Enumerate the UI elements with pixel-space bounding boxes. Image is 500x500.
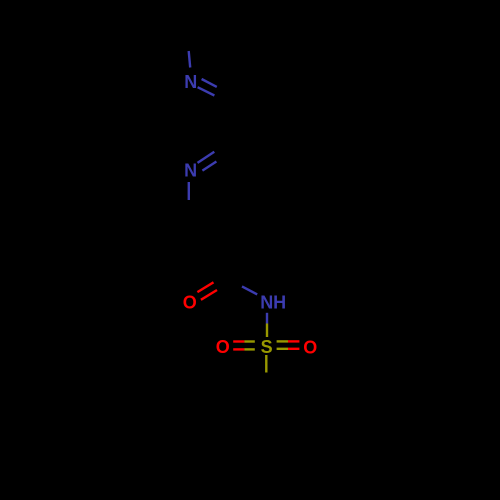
svg-text:O: O <box>303 337 317 357</box>
svg-text:O: O <box>183 293 197 313</box>
svg-text:S: S <box>261 337 273 357</box>
svg-text:O: O <box>216 337 230 357</box>
svg-text:N: N <box>184 161 197 181</box>
svg-text:N: N <box>184 72 197 92</box>
svg-text:NH: NH <box>260 293 286 313</box>
